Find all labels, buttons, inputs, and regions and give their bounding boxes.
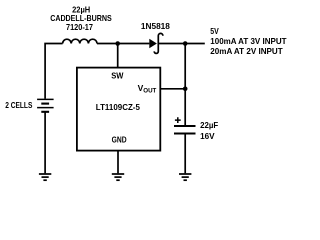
node: junction dot at VOUT connection xyxy=(183,87,188,92)
inductor L1 22µH xyxy=(63,39,97,43)
svg-text:VOUT: VOUT xyxy=(138,83,157,95)
svg-text:1N5818: 1N5818 xyxy=(141,21,170,31)
node: junction dot at output rail / cap branch xyxy=(183,41,188,46)
diode D1 1N5818 Schottky triangle xyxy=(149,39,157,48)
svg-text:LT1109CZ-5: LT1109CZ-5 xyxy=(96,102,140,112)
svg-text:7120-17: 7120-17 xyxy=(66,22,93,32)
ground symbol under battery xyxy=(39,174,51,180)
IC U1 LT1109CZ-5 box xyxy=(77,68,160,151)
battery B1 2 CELLS plates xyxy=(37,99,54,111)
wire: SW pin from top rail junction to IC top xyxy=(117,44,119,68)
svg-text:5V: 5V xyxy=(210,26,219,36)
wire: GND pin from IC bottom to ground xyxy=(117,151,119,174)
svg-text:GND: GND xyxy=(112,135,127,145)
wire: capacitor bottom to ground xyxy=(184,134,186,174)
wire: top rail from inductor to diode anode xyxy=(97,43,149,45)
svg-text:16V: 16V xyxy=(200,131,215,141)
wire: top rail left segment from battery corner to inductor xyxy=(45,44,63,99)
capacitor C1 top plate with wire xyxy=(174,125,196,127)
ground symbol under capacitor xyxy=(179,174,191,180)
svg-text:22µF: 22µF xyxy=(200,120,218,130)
svg-text:100mA AT 3V INPUT: 100mA AT 3V INPUT xyxy=(210,36,287,46)
wire: battery negative to ground xyxy=(44,112,46,173)
wire: VOUT pin from IC to output branch xyxy=(160,88,185,90)
capacitor C1 bottom plate xyxy=(174,133,196,135)
svg-text:2 CELLS: 2 CELLS xyxy=(5,101,33,110)
svg-text:20mA AT 2V INPUT: 20mA AT 2V INPUT xyxy=(210,46,283,56)
diode D1 Schottky cathode bar xyxy=(154,33,163,53)
ground symbol under IC GND pin xyxy=(112,174,124,180)
node: junction dot at SW tap on top rail xyxy=(115,41,120,46)
wire: vertical output branch from top rail down to capacitor xyxy=(184,44,186,126)
wire: top rail from diode cathode to output stub end xyxy=(158,43,205,45)
svg-text:SW: SW xyxy=(111,71,124,81)
label C1 polarity + xyxy=(175,117,181,123)
